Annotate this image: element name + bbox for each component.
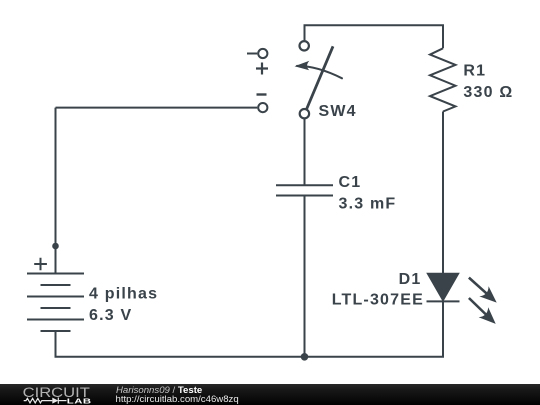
LED arrow 1 (469, 278, 497, 303)
wire left rail (56, 107, 258, 109)
svg-text:C1: C1 (339, 174, 362, 191)
svg-text:D1: D1 (399, 271, 422, 288)
svg-text:330 Ω: 330 Ω (463, 84, 513, 101)
wire right middle (442, 112, 444, 275)
junction dot bottom (301, 353, 309, 361)
battery plus sign (34, 258, 47, 271)
resistor R1 (430, 48, 456, 111)
switch SW4 (295, 41, 343, 118)
wire battery top (55, 108, 57, 274)
wire bottom rail left (56, 331, 305, 357)
footer text line 2 (116, 394, 239, 405)
battery V1 (27, 274, 84, 332)
wire capacitor bottom (304, 196, 306, 357)
svg-text:3.3 mF: 3.3 mF (339, 196, 397, 213)
LED arrow 2 (469, 298, 496, 324)
LED D1 (427, 274, 460, 302)
wire right bottom (305, 301, 444, 356)
terminal plus stub (247, 53, 257, 55)
footer text line 1 (116, 385, 202, 396)
minus sign (257, 93, 267, 95)
svg-text:SW4: SW4 (319, 103, 357, 120)
svg-text:4 pilhas: 4 pilhas (89, 286, 158, 303)
terminal plus circle (258, 49, 267, 58)
wire top rail (305, 25, 444, 48)
wire switch bottom (304, 118, 306, 185)
svg-text:LTL-307EE: LTL-307EE (332, 292, 424, 309)
svg-text:LAB: LAB (67, 397, 92, 405)
footer bar (0, 384, 540, 405)
terminal minus circle (258, 103, 267, 112)
CircuitLab logo (0, 384, 110, 405)
svg-text:R1: R1 (463, 63, 486, 80)
svg-text:6.3 V: 6.3 V (89, 307, 132, 324)
plus sign (256, 63, 268, 75)
capacitor C1 (276, 185, 333, 195)
junction dot battery (52, 243, 59, 250)
